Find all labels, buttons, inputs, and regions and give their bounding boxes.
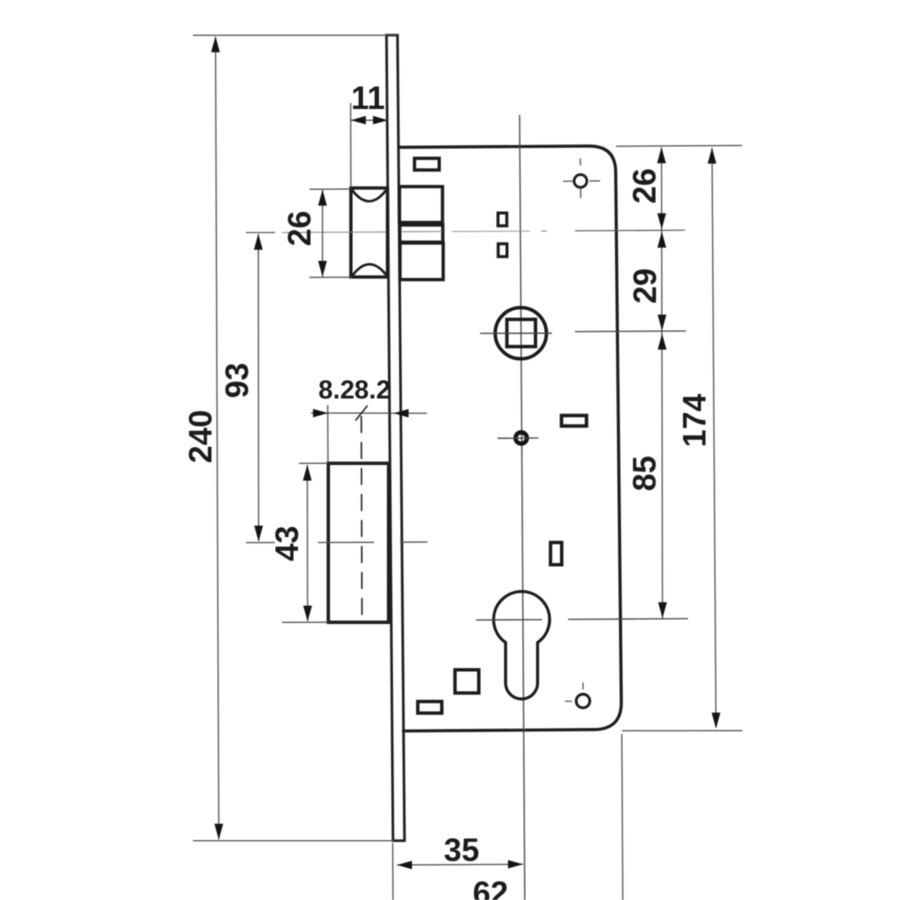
arrow 43 top xyxy=(303,465,312,481)
spindle follower: circle xyxy=(495,308,546,359)
26 latch dim line xyxy=(322,190,324,277)
screw hole bottom-right xyxy=(576,694,590,708)
svg-text:43: 43 xyxy=(269,526,305,562)
arrow 8.2 left xyxy=(313,409,328,418)
right chain dim line (26/29/85) xyxy=(662,148,663,619)
deadbolt dashed centerline xyxy=(360,416,363,622)
arrow 35 left xyxy=(397,861,412,869)
small rect hole upper-mid 1 xyxy=(498,213,507,226)
26 latch ext top xyxy=(310,188,352,190)
latch bolt (left of faceplate) xyxy=(351,188,388,277)
arrow 93 top xyxy=(254,234,263,250)
svg-text:11: 11 xyxy=(351,80,385,116)
svg-text:62: 62 xyxy=(473,875,509,900)
main vertical centerline xyxy=(520,115,525,900)
svg-text:8.2: 8.2 xyxy=(354,375,390,405)
bottom extension line xyxy=(193,840,394,842)
26 latch ext bottom xyxy=(310,276,353,278)
svg-text:29: 29 xyxy=(627,268,663,304)
cylinder horizontal centerline xyxy=(476,619,542,621)
deadbolt top ext xyxy=(299,462,329,464)
euro cylinder hole xyxy=(494,592,550,699)
faceplate xyxy=(387,35,405,841)
93 dim line xyxy=(257,234,259,541)
arrow 85 bottom xyxy=(658,602,667,618)
arrow 174 bottom xyxy=(712,713,721,729)
ext right edge bottom xyxy=(622,734,623,900)
arrow 26-latch top xyxy=(318,190,327,206)
svg-text:8.2: 8.2 xyxy=(318,375,354,405)
8.2 dim line xyxy=(311,412,427,414)
svg-text:93: 93 xyxy=(219,363,255,399)
93 bottom tick xyxy=(246,542,275,544)
svg-text:26: 26 xyxy=(627,168,663,204)
small rect hole bottom-left xyxy=(418,702,442,714)
spindle horizontal centerline xyxy=(480,332,552,334)
spindle square hole xyxy=(507,319,536,346)
arrow 43 bottom xyxy=(303,606,312,622)
arrowheads xyxy=(211,36,720,869)
deadbolt horizontal centerline xyxy=(318,541,374,543)
small rect hole top (in case) xyxy=(415,158,440,170)
240 dim line xyxy=(216,37,219,839)
lock body outline xyxy=(398,146,621,731)
arrow 8.2 right xyxy=(394,409,409,418)
11 dim line xyxy=(351,119,388,121)
svg-text:35: 35 xyxy=(444,832,480,868)
8.2 left extension down xyxy=(327,405,329,462)
arrow 174 top xyxy=(708,148,717,164)
arrow 11 right xyxy=(373,116,388,125)
arrow 26-right top xyxy=(657,147,666,163)
174 dim line xyxy=(712,148,716,727)
arrow 29 top xyxy=(657,232,666,248)
latch interior boxes (right of faceplate) xyxy=(400,187,444,280)
arrow 26-latch bottom xyxy=(318,261,327,277)
35 dim line xyxy=(397,863,523,866)
small rect hole mid-right xyxy=(562,416,587,427)
arrow 240 bottom xyxy=(214,824,223,840)
svg-text:26: 26 xyxy=(282,211,318,247)
arrow 26-right bottom xyxy=(657,213,666,229)
square hole bottom-left xyxy=(455,670,479,693)
svg-text:174: 174 xyxy=(677,394,713,448)
arrow 35 right xyxy=(508,860,523,869)
latch horizontal centerline xyxy=(246,230,685,232)
small hole with crosshair xyxy=(516,432,527,443)
arrow 93 bottom xyxy=(254,526,263,542)
svg-text:85: 85 xyxy=(627,456,663,492)
arrow 29 bottom xyxy=(658,315,667,331)
top extension line xyxy=(193,34,397,36)
lock top ext xyxy=(616,145,742,148)
small rect hole upper-mid 2 xyxy=(498,244,507,257)
8.2 slash tick xyxy=(356,406,368,421)
11 left extension xyxy=(350,103,352,186)
small rect hole above cylinder xyxy=(551,543,562,565)
lock bottom ext xyxy=(622,730,743,732)
svg-text:240: 240 xyxy=(183,410,219,463)
deadbolt bottom ext xyxy=(282,621,329,623)
arrow 85 top xyxy=(658,334,667,350)
43 dim line xyxy=(306,465,308,621)
ext below faceplate xyxy=(392,843,394,900)
screw hole top-right xyxy=(574,175,587,188)
arrow 11 left xyxy=(351,116,366,125)
deadbolt xyxy=(328,463,388,622)
arrow 240 top xyxy=(211,36,220,52)
